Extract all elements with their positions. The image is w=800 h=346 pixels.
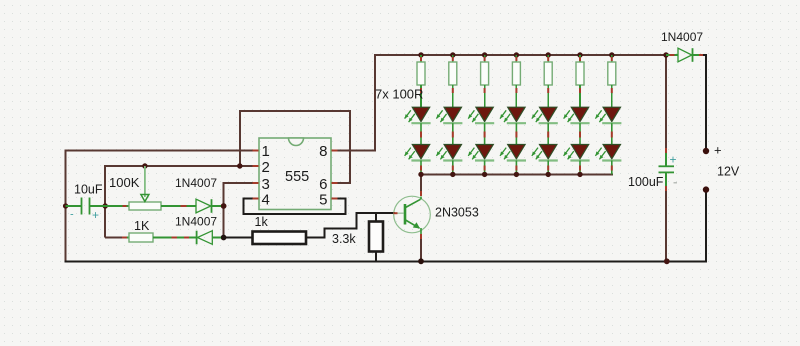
junction dot top rail col 7 (609, 52, 614, 57)
LED D7a (top) col 7 (595, 107, 621, 144)
junction dot top rail col 5 (546, 52, 551, 57)
svg-text:2: 2 (262, 159, 270, 176)
wire pin 3 horizontal (224, 182, 259, 184)
svg-text:12V: 12V (717, 165, 740, 179)
junction dot rail/100uF branch (663, 52, 668, 57)
diode D2 1N4007 (reversed) (177, 231, 221, 245)
LED D5b (bottom) col 5 (532, 145, 558, 175)
LED D1b (bottom) col 1 (405, 145, 431, 175)
wire pin2-pin6 tie right leg (349, 111, 351, 183)
LED D5a (top) col 5 (532, 107, 558, 144)
junction dot ground/cap- (63, 203, 68, 208)
pin end R2 left (122, 237, 127, 239)
svg-text:7x 100R: 7x 100R (375, 87, 423, 102)
wire top supply rail (374, 54, 666, 56)
battery B1 12V positive terminal (703, 148, 709, 154)
wire 3.3k top lead (375, 213, 377, 221)
wire diode cathode to battery+ (693, 54, 708, 56)
svg-text:+: + (714, 143, 722, 158)
junction dot top rail col 2 (450, 52, 455, 57)
LED D3b (bottom) col 3 (468, 145, 494, 175)
wire D2 node to 1k (224, 237, 253, 239)
wire LED rail to collector (420, 173, 422, 192)
junction dot bottom LED rail col 1 (418, 172, 423, 177)
svg-text:555: 555 (285, 169, 309, 185)
wire 100uF to ground rail (665, 190, 667, 262)
LED D4a (top) col 4 (500, 107, 526, 144)
junction dot top rail col 1 (418, 52, 423, 57)
wire pin2 net horizontal (105, 165, 259, 167)
polarity mark C2 (674, 182, 678, 184)
LED D7b (bottom) col 7 (595, 145, 621, 175)
LED D2b (bottom) col 2 (436, 145, 462, 175)
IC U1 555 timer (259, 138, 331, 210)
resistor 100R col 5 (544, 55, 552, 108)
svg-text:2N3053: 2N3053 (435, 206, 479, 220)
svg-text:1N4007: 1N4007 (175, 176, 217, 190)
pin end D3 anode (670, 54, 675, 56)
svg-text:-: - (70, 209, 74, 221)
resistor 100R col 6 (576, 55, 584, 108)
junction dot pin2/pin6 tie (237, 163, 242, 168)
svg-text:3.3k: 3.3k (332, 232, 356, 246)
pin end emitter (420, 234, 422, 239)
junction dot pin3/D2/1k (221, 235, 227, 241)
wire pin4-5 loop right (345, 198, 347, 215)
wire pin4-5 loop bottom (243, 213, 347, 215)
wire pin4-5 loop left (243, 198, 245, 215)
capacitor C1 10uF (66, 198, 106, 215)
wire to transistor base (356, 212, 396, 214)
pin end D3 cathode (699, 54, 703, 56)
wire jog up 1 (324, 228, 326, 238)
svg-text:+: + (670, 153, 677, 167)
resistor R3 1k (253, 232, 307, 245)
wire emitter to ground (420, 238, 422, 263)
svg-text:1N4007: 1N4007 (661, 30, 703, 44)
svg-text:100uF: 100uF (628, 175, 664, 189)
junction dot bottom LED rail col 3 (482, 172, 487, 177)
wire 1k to jog (306, 237, 325, 239)
LED D6b (bottom) col 6 (564, 145, 590, 175)
LED D1a (top) col 1 (405, 107, 431, 144)
svg-text:1: 1 (262, 143, 270, 160)
wire pin 3 vertical (223, 182, 225, 238)
junction dot bottom LED rail col 4 (514, 172, 519, 177)
wire pin 4 stub (244, 198, 260, 200)
battery B1 negative terminal (703, 186, 709, 192)
wire battery - vertical (705, 190, 707, 263)
svg-text:8: 8 (319, 143, 327, 160)
junction dot bottom LED rail col 6 (577, 172, 582, 177)
svg-text:1K: 1K (134, 219, 150, 233)
junction dot bottom LED rail col 2 (450, 172, 455, 177)
junction dot 100uF/ground rail (664, 258, 670, 264)
pin end collector (420, 191, 422, 196)
LED D3a (top) col 3 (468, 107, 494, 144)
pin ends D1/R1 (181, 205, 187, 207)
capacitor C2 100uF (659, 150, 675, 190)
LED D2a (top) col 2 (436, 107, 462, 144)
svg-text:3: 3 (262, 176, 270, 193)
junction dot pin3/D1 (221, 203, 227, 209)
LED D4b (bottom) col 4 (500, 145, 526, 175)
wire battery + vertical (705, 55, 707, 151)
resistor R2 1K (122, 233, 172, 242)
resistor 100R col 3 (481, 55, 489, 108)
junction dot emitter/ground rail (418, 258, 424, 264)
diode D3 1N4007 (supply) (666, 48, 703, 62)
transistor Q1 2N3053 (394, 196, 431, 236)
resistor 100R col 2 (449, 55, 457, 108)
resistor 100R col 7 (608, 55, 616, 108)
svg-text:+: + (92, 208, 99, 222)
wire jog horizontal (324, 227, 358, 229)
wire down to 100uF (665, 55, 667, 149)
junction node A dot (103, 203, 108, 208)
pin end C2 top (665, 148, 667, 153)
svg-text:100K: 100K (109, 175, 140, 190)
wire to 1K resistor (105, 237, 122, 239)
junction dot top rail col 3 (482, 52, 487, 57)
pin end C2 bottom (665, 186, 667, 191)
wire 3.3k bottom lead (375, 252, 377, 263)
svg-text:4: 4 (262, 192, 270, 209)
pin end R1 left (123, 205, 127, 207)
wire left vertical ground (65, 150, 67, 263)
junction dot wiper tap (142, 163, 147, 168)
wire pin2-pin6 tie top (239, 110, 351, 112)
junction dot top rail col 4 (514, 52, 519, 57)
svg-text:6: 6 (319, 176, 327, 193)
wire Vcc riser (374, 55, 376, 151)
svg-text:1k: 1k (255, 215, 269, 229)
wire jog up 2 (356, 213, 358, 229)
svg-text:1N4007: 1N4007 (175, 215, 217, 229)
pin ends R2/D2 (172, 237, 178, 239)
resistor 100R col 4 (512, 55, 520, 108)
svg-text:10uF: 10uF (74, 183, 103, 197)
wire pin 5 stub (331, 198, 347, 200)
diode D1 1N4007 (186, 199, 221, 213)
wire pin1 to ground net (66, 150, 259, 152)
wire pin 8 to Vcc rail (331, 150, 376, 152)
wire LED cathode rail (420, 173, 613, 175)
wire bottom ground rail (65, 260, 707, 262)
wire to pin 6 (331, 182, 351, 184)
potentiometer R1 100K (105, 166, 181, 210)
pin end D2 (184, 237, 189, 239)
junction dot top rail col 6 (577, 52, 582, 57)
resistor 100R col 1 (417, 55, 425, 108)
svg-text:5: 5 (319, 192, 327, 209)
wire node A vertical (cap+/pot/1K) (104, 165, 106, 238)
junction dot bottom LED rail col 5 (546, 172, 551, 177)
pin end base (394, 212, 398, 214)
wire pin2-pin6 tie left leg (239, 111, 241, 166)
resistor R4 3.3k (369, 222, 383, 252)
LED D6a (top) col 6 (564, 107, 590, 144)
